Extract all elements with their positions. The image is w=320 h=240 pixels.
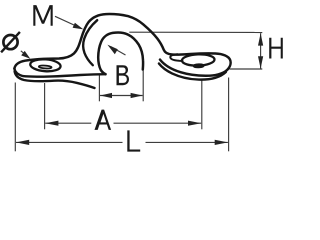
- arrowhead leader M: [73, 23, 84, 30]
- left hole: [39, 65, 52, 69]
- label A: [95, 110, 112, 130]
- arrowhead B left: [100, 93, 112, 98]
- crease under right pad back edge: [170, 54, 182, 61]
- leader M: [55, 16, 81, 28]
- arrowhead leader diameter: [21, 51, 30, 59]
- label diameter symbol: [1, 32, 20, 52]
- left pad bottom thickness edge: [15, 71, 95, 88]
- arrowhead H top: [258, 33, 263, 45]
- arrowhead leader B arch: [107, 45, 117, 55]
- left countersink ellipse: [30, 58, 61, 72]
- right countersink ellipse: [182, 54, 215, 66]
- label B: [117, 65, 130, 85]
- extension line L left: [14, 83, 16, 152]
- extension line H bottom: [230, 68, 263, 70]
- extension line B left: [98, 75, 100, 102]
- arrowhead L left: [16, 140, 29, 145]
- extension line B right: [142, 71, 144, 102]
- dimension line L: [16, 141, 123, 143]
- extension line H top: [129, 31, 262, 33]
- extension line A left: [44, 83, 46, 129]
- extension line L right: [228, 78, 230, 152]
- arrowhead L right: [215, 140, 228, 145]
- inner arch bell edge from left pad cusp over dome to right leg: [98, 33, 143, 75]
- dimension line H: [260, 33, 262, 68]
- leader diameter: [21, 51, 27, 56]
- label L: [127, 130, 140, 151]
- leader B arch: [111, 47, 126, 56]
- label M: [33, 5, 52, 26]
- right pad bottom thickness edge: [159, 64, 226, 80]
- right hole: [194, 64, 204, 67]
- arrowhead H bottom: [258, 56, 263, 68]
- arrowhead B right: [131, 93, 143, 98]
- arch front-left outer edge: [83, 20, 97, 65]
- extension line A right: [201, 80, 203, 129]
- left pad front top edge: [14, 69, 105, 77]
- arrowhead A right: [188, 121, 201, 126]
- left pad top edge into arch outer curve over apex into right pad back edge and around right pad: [14, 14, 230, 76]
- arrowhead A left: [45, 121, 58, 126]
- dimension line B: [100, 95, 143, 97]
- label H: [269, 38, 283, 59]
- dimension line A: [45, 122, 91, 124]
